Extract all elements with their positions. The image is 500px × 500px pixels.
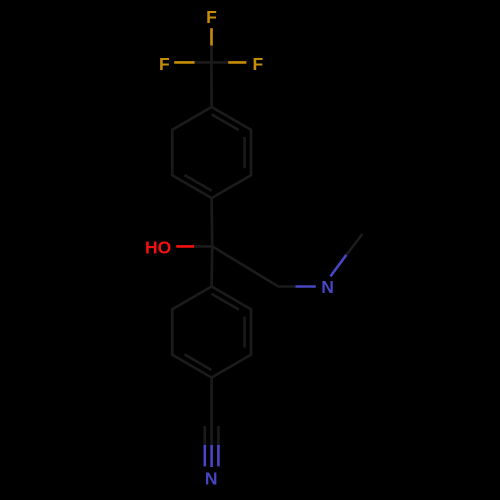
bond F right gold half <box>228 61 246 64</box>
bottom ring inner double bonds <box>243 316 246 347</box>
bond CF3 to ring <box>210 62 213 107</box>
bond carbinol to bottom ring <box>210 246 213 286</box>
bond F left gold half <box>174 61 194 64</box>
top ring inner double bonds <box>243 137 246 168</box>
svg-text:N: N <box>321 277 334 297</box>
bond ring to nitrile C <box>210 378 213 424</box>
chain carbinol to CH2 <box>212 246 278 286</box>
svg-text:HO: HO <box>145 237 171 257</box>
bond N to methyl blue half <box>330 255 346 277</box>
bond ring to carbinol <box>210 198 213 246</box>
nitrile triple bond dark halves <box>204 426 207 445</box>
wire: C-F right dark half <box>211 61 228 64</box>
svg-text:F: F <box>253 54 264 74</box>
bond O red half <box>176 245 194 248</box>
nitrile triple bond blue halves <box>204 445 207 466</box>
bond N methyl dark half <box>346 234 362 255</box>
wire: C-F top dark half <box>210 45 213 62</box>
svg-text:N: N <box>205 469 218 489</box>
bond CH2 to N dark half <box>278 285 297 288</box>
svg-text:F: F <box>159 54 170 74</box>
bond N blue half <box>296 285 316 288</box>
svg-text:F: F <box>206 7 217 27</box>
bond F top gold half <box>210 28 213 45</box>
bottom ring <box>172 287 251 378</box>
top ring <box>172 107 251 198</box>
bond carbinol to O dark half <box>194 245 212 248</box>
wire: C-F left dark half <box>195 61 212 64</box>
